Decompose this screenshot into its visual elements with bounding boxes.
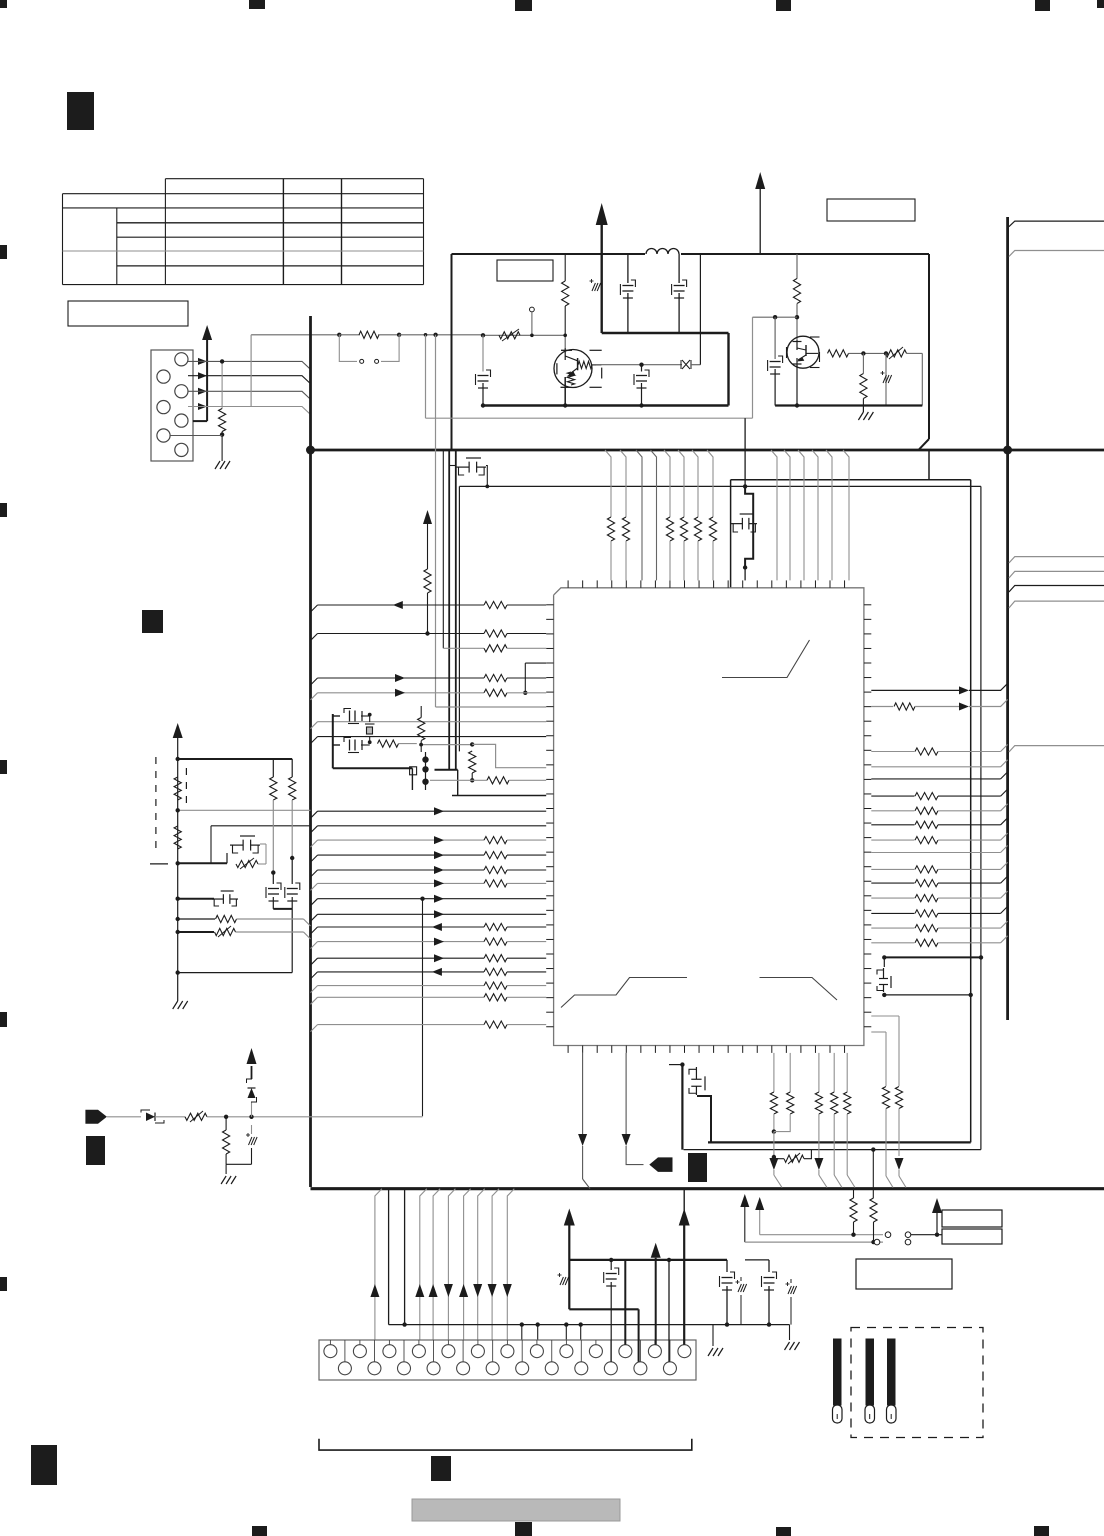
vcc column x655 [651, 1243, 661, 1258]
probe 2 [866, 1339, 875, 1406]
crop mark top x1042 [1035, 0, 1050, 11]
label box below table [68, 301, 188, 326]
row right y796 [871, 795, 914, 797]
row right y690 with arrow into bus [871, 689, 960, 691]
thick link y1260 [569, 1259, 684, 1261]
row right y883 [871, 882, 914, 884]
section marker block top-left [67, 92, 94, 130]
mosfet M5 bottom of box A [680, 1062, 684, 1066]
jumper contacts 4 circles [885, 1232, 891, 1238]
cap C4 x641 [639, 363, 643, 367]
crop mark left y1020 [0, 1012, 7, 1027]
label box power block right [827, 199, 915, 221]
section marker block center-bottom [688, 1153, 707, 1182]
main horizontal rail y450 [311, 449, 1104, 452]
bottom link y972 [176, 970, 180, 974]
row y722 gray [311, 722, 318, 729]
row y870 to IC [311, 870, 318, 877]
crop mark top x783 [776, 0, 791, 11]
ground right section [862, 406, 864, 413]
row y781 with resistor [430, 779, 487, 781]
crop mark top-left corner [0, 0, 7, 8]
row y927 to IC [311, 927, 318, 934]
bottom thick border y1186 [311, 1187, 1104, 1190]
long vertical x427 with source arrow [423, 510, 432, 524]
resistor with slash (trimmer) right [886, 350, 907, 357]
row right y869 [871, 868, 914, 870]
thick link lines left section [602, 332, 729, 334]
resistor pull at connector [221, 361, 223, 408]
row right y810 [871, 810, 914, 812]
row y648 to IC (from x443) [443, 647, 484, 649]
Q2 emitter down [796, 365, 798, 406]
crop mark left y510 [0, 503, 7, 517]
row right y778 [871, 778, 1000, 780]
resistor R vert left section [564, 254, 566, 281]
col 819 to arrow [818, 1114, 820, 1158]
wire pin to flag x626 [625, 1053, 627, 1136]
polarized cap marker on VCC1 [592, 283, 595, 291]
up arrow VCC1 thick [596, 203, 608, 225]
cols 834/847 down to border [833, 1114, 835, 1175]
drop to ground right [712, 1325, 714, 1346]
vcc column x684 thick [683, 1190, 685, 1212]
up arrow at connector [202, 325, 212, 340]
thick link y1309 [569, 1308, 638, 1310]
row right y942 [871, 942, 914, 944]
open terminal above trimmer [530, 307, 535, 312]
connector CN left pins [175, 353, 188, 366]
oscillator cluster: cap pair + crystals [344, 709, 362, 724]
row y693 to IC [311, 693, 318, 700]
long vertical x422 to flag wire [422, 899, 424, 1116]
section marker block under bracket [431, 1456, 451, 1481]
up arrow VCC2 [755, 172, 765, 189]
jumper loop with open contacts [339, 335, 357, 362]
crop mark bottom x258 [252, 1526, 267, 1536]
long vertical x443 [442, 450, 444, 648]
resistor R on wire y335 [359, 331, 379, 338]
label box bottom right [856, 1259, 952, 1289]
crop mark top x255 [249, 0, 265, 9]
bottom connector CN2 body [319, 1340, 696, 1380]
wire y317 [753, 316, 798, 318]
vertical from top border x700 [699, 254, 701, 365]
crop mark top-right corner [1097, 0, 1104, 8]
wire exit top right y250 [1009, 251, 1104, 257]
caps pair x276/x290 [272, 873, 274, 884]
resistor R vert right section [796, 254, 798, 279]
cap C11 x730 [684, 1259, 727, 1261]
row right y852 [871, 852, 1000, 854]
section marker block mid-left [142, 610, 163, 633]
mosfet M4 right of IC [877, 968, 891, 992]
resistors x273/x292 [272, 759, 274, 777]
inductor L on top edge [645, 249, 681, 258]
gray footer box [412, 1499, 620, 1521]
IC pin ticks top [567, 580, 569, 587]
connector pin arrows [198, 358, 207, 365]
flag wire [107, 1116, 141, 1118]
dashed accessory box [851, 1328, 983, 1438]
crystal X2 [410, 767, 417, 775]
row y855 to IC [311, 855, 318, 862]
dashed box marks [155, 757, 157, 855]
row right y706 [871, 706, 893, 708]
transistor Q2 [787, 336, 819, 368]
IC inner mark bottom-right [760, 978, 838, 1001]
column x669 [668, 1260, 670, 1362]
resistor vert osc x421 [418, 718, 425, 741]
columns to connector with arrows [375, 1189, 382, 1340]
crop mark left y767 [0, 760, 7, 774]
zener diode column x251 [251, 1102, 253, 1117]
gray wire y418 across block [424, 333, 428, 337]
mosfet M2 [240, 835, 255, 837]
row y707 gray from x435 [436, 706, 547, 708]
long vertical hairpin x449/x456 thick [448, 450, 450, 770]
small box pair right [942, 1210, 1002, 1227]
row right y840 [871, 839, 914, 841]
wire y995 [882, 993, 886, 997]
CN2 bottom row pins [338, 1362, 351, 1375]
Q1 emitter to rail [563, 403, 567, 407]
IC inner mark top [722, 640, 810, 678]
below-IC resistor columns [773, 1053, 775, 1092]
resistor between below-IC columns [772, 1155, 776, 1159]
section marker block bottom-left big [31, 1445, 57, 1485]
crop mark bottom x522 [515, 1522, 532, 1536]
row y997 to IC [311, 997, 318, 1004]
crystal X1 [367, 727, 373, 734]
wire exit right y571 [1009, 571, 1104, 578]
row y971 to IC [311, 972, 318, 979]
row y826 extension from x211 [211, 825, 311, 827]
IC pin ticks bottom [567, 1046, 569, 1053]
top link y759 [176, 757, 180, 761]
probe 1 [833, 1339, 842, 1406]
capacitor C1 x628 [627, 254, 629, 283]
label box power block left [497, 260, 553, 281]
col 790 joins col 774 [774, 1114, 790, 1132]
junction y863 [176, 861, 180, 865]
CN2 top row pins [324, 1345, 337, 1358]
row y883 to IC [311, 883, 318, 890]
thick vcc column x569 [564, 1209, 575, 1226]
crop mark top x522 [515, 0, 532, 11]
trimmer under M2 [236, 860, 258, 867]
connector CN left body [151, 350, 193, 461]
varactor dots [422, 756, 428, 762]
wire exit right y745 [1009, 746, 1104, 752]
wire pin to down arrow x582 [582, 1053, 584, 1136]
resistor with slash on flag wire [185, 1113, 207, 1120]
row y678 to IC [311, 678, 318, 685]
row right y898 [871, 897, 914, 899]
capacitor C2 x679 [678, 254, 680, 283]
col 774 to arrow [773, 1114, 775, 1132]
vertical x752 gray riser [752, 317, 754, 418]
clock mosfet block x745 [744, 418, 746, 486]
drops to connector pins [520, 1322, 524, 1326]
mosfet M1 below rail [466, 457, 481, 459]
bead/diode element right of Q1 [596, 364, 682, 366]
cap C12 x769 [768, 1260, 770, 1272]
Q2 brackets [810, 336, 820, 338]
trimmer resistor on base wire [499, 332, 520, 339]
power block outline [452, 253, 930, 255]
section marker block lower-left [86, 1136, 105, 1165]
distribution line y1324 [389, 1324, 790, 1326]
wire exit right y601 [1009, 601, 1104, 608]
row y840 to IC [311, 840, 318, 847]
row y633 to IC [311, 634, 318, 641]
right vertical bus x1007 [1006, 217, 1009, 1020]
resistor L-columns from IC right pins [871, 1015, 899, 1017]
resistor vert x863 [860, 374, 867, 399]
row y794 thick from x452 [452, 795, 546, 797]
resistor to ground [225, 1117, 227, 1130]
row y605 to IC [311, 605, 318, 612]
row y825 to IC [311, 826, 318, 833]
resistors hanging from border x853/x873 [853, 1189, 855, 1198]
right section bottom rail [775, 404, 922, 406]
row y737 [311, 737, 318, 744]
wire exit right y556 [1009, 557, 1104, 563]
connector signal wires to bus [188, 361, 310, 369]
ground left-mid [173, 1001, 178, 1009]
row y898 junction with x422 vertical [420, 897, 424, 901]
inner box B top/right/bottom [459, 485, 981, 487]
table: parts list grid [63, 179, 424, 285]
ground below connector resistor [215, 461, 220, 469]
junction dot bus/rail right [1003, 446, 1012, 455]
row y663 stub [525, 662, 546, 664]
row y811 extension to left section [178, 809, 311, 811]
osc out wire to IC [421, 744, 472, 746]
link y770 [435, 769, 458, 771]
cap C3 x483 [481, 333, 485, 337]
IC pin ticks left [546, 604, 553, 606]
thick link y957 right of IC [884, 956, 981, 958]
wire to boxes [911, 1234, 937, 1236]
IC U1 body [554, 588, 864, 1046]
row right y928 [871, 927, 914, 929]
resistor vert x472 [469, 751, 476, 773]
row y811 to IC [311, 811, 318, 818]
columns from rail to IC top with pull resistors [605, 450, 611, 517]
row y958 to IC [311, 958, 318, 965]
bracket under connector [319, 1439, 692, 1450]
crop mark left y252 [0, 245, 7, 259]
verticals x388/x404 to distribution line [388, 1189, 390, 1325]
transistor Q1 digital [554, 350, 592, 388]
row right y751 [871, 751, 914, 753]
row y985 to IC [311, 986, 318, 993]
vertical stub x525 rows 663-693 [524, 663, 526, 693]
crop mark bottom x1040 [1034, 1526, 1049, 1536]
IC inner mark bottom-left [561, 978, 687, 1008]
diode D1 [146, 1113, 155, 1122]
wire y335 from connector area to power block [251, 334, 339, 336]
Q2 collector output wire [828, 350, 849, 357]
probe 3 [887, 1339, 896, 1406]
junction dot bus/rail left [306, 446, 315, 455]
row right y824 [871, 824, 914, 826]
resistor on osc output [378, 740, 399, 747]
long vertical x435 gray [435, 335, 437, 707]
columns with up arrows x744/x759 [740, 1194, 749, 1207]
left-mid: supply arrow [173, 723, 183, 738]
wire exit right y585 [1009, 586, 1104, 593]
resistor vert x177 upper [174, 777, 181, 800]
cap C10 x611 [610, 1260, 612, 1270]
Q1 SMD brackets [590, 349, 602, 351]
cap C5 x775 [774, 317, 776, 359]
crop mark bottom x781 [776, 1527, 791, 1536]
resistor vert x177 lower [174, 826, 181, 849]
thick vcc column x625 [624, 1260, 626, 1345]
IC pin ticks right [864, 604, 871, 606]
input flag connector [85, 1110, 107, 1124]
output flag left-pointing [649, 1157, 672, 1172]
row y898 to IC [311, 899, 318, 906]
inner box A top/right/bottom [731, 479, 971, 481]
crop mark left y1283 [0, 1277, 7, 1291]
row y941 to IC [311, 942, 318, 949]
electrolytic marker below x251 [249, 1137, 252, 1145]
row y914 to IC [311, 914, 318, 921]
mosfet M3 [176, 897, 180, 901]
base feed wire into Q1 [483, 334, 565, 336]
row right y913 [871, 912, 914, 914]
electrolytic marker x886 [884, 351, 888, 355]
row right y766 [871, 766, 1000, 768]
main vertical bus left x310 [309, 316, 312, 1187]
wire exit top right y221 [1009, 221, 1104, 227]
row y1024 to IC [311, 1025, 318, 1032]
trimmer rows [176, 917, 180, 921]
